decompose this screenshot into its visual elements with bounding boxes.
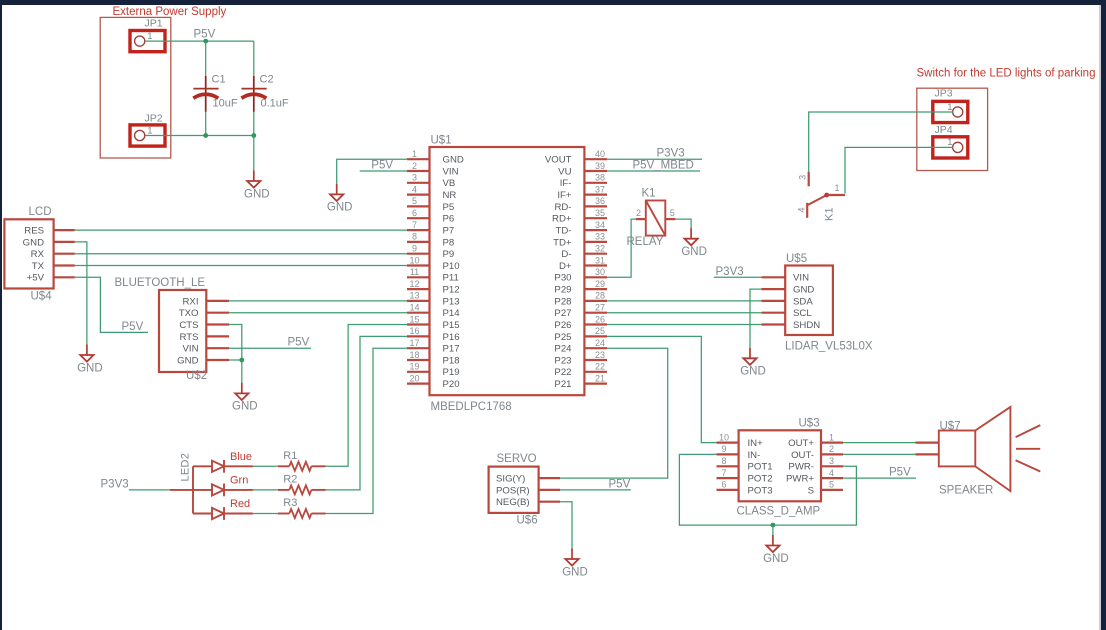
wire: U$1 pin26 to LIDAR SHDN (607, 324, 761, 326)
IC U$3 CLASS_D_AMP body (739, 430, 821, 501)
svg-text:7: 7 (721, 468, 726, 478)
svg-text:10: 10 (719, 432, 729, 442)
svg-text:CTS: CTS (179, 320, 198, 331)
svg-text:R3: R3 (283, 497, 297, 509)
svg-text:P20: P20 (443, 379, 460, 390)
pin 31 (D+) of U$1 (559, 255, 607, 272)
svg-text:IN+: IN+ (748, 438, 764, 449)
svg-text:P14: P14 (443, 308, 461, 319)
IC U$2 BLUETOOTH_LE body (159, 290, 206, 372)
svg-text:SDA: SDA (793, 296, 813, 307)
svg-text:32: 32 (595, 244, 605, 254)
pin 5 of relay K1 (665, 208, 675, 219)
pin 30 (P30) of U$1 (554, 267, 607, 284)
svg-text:LIDAR_VL53L0X: LIDAR_VL53L0X (785, 341, 873, 353)
svg-text:P5V: P5V (371, 160, 393, 172)
LED2 anode bus (193, 466, 212, 513)
svg-text:D+: D+ (559, 261, 572, 272)
wire: U$1 pin1 GND (337, 159, 407, 185)
svg-text:9: 9 (412, 244, 417, 254)
svg-text:P29: P29 (554, 285, 571, 296)
svg-text:P5V: P5V (122, 321, 144, 333)
svg-text:GND: GND (763, 553, 789, 565)
speaker pin + lead (916, 442, 939, 444)
pin 35 (RD+) of U$1 (552, 208, 607, 225)
pin VIN of LIDAR U$5 (761, 273, 809, 284)
svg-text:39: 39 (595, 161, 605, 171)
svg-text:GND: GND (232, 401, 258, 413)
svg-text:P7: P7 (443, 226, 455, 237)
svg-text:P24: P24 (554, 344, 572, 355)
pin 6 (P6) of U$1 (407, 208, 454, 225)
svg-text:JP4: JP4 (935, 124, 953, 136)
wire: C1 bottom lead (205, 112, 207, 136)
pin 26 (P26) of U$1 (554, 314, 607, 331)
wire: LCD GND down to ground (75, 242, 87, 346)
svg-text:SPEAKER: SPEAKER (939, 485, 993, 497)
svg-text:36: 36 (595, 196, 605, 206)
svg-text:PWR-: PWR- (788, 462, 814, 473)
wire: rail down to C1 (205, 41, 207, 76)
pin CTS of BLUETOOTH_LE U$2 (179, 320, 229, 331)
svg-text:Externa Power Supply: Externa Power Supply (113, 6, 227, 18)
svg-text:P26: P26 (554, 320, 571, 331)
pin SIG(Y) of SERVO U$6 (496, 474, 560, 485)
pin 40 (VOUT) of U$1 (545, 149, 607, 166)
svg-text:P3V3: P3V3 (101, 478, 129, 490)
svg-text:U$3: U$3 (799, 418, 820, 430)
pin SCL of LIDAR U$5 (761, 308, 812, 319)
wire: LIDAR GND down to ground (750, 289, 761, 349)
wire: U$1 pin40 P3V3 stub (607, 158, 702, 160)
pin 3 (VB) of U$1 (407, 173, 455, 190)
node: P5V junction at C1 (203, 39, 208, 44)
svg-text:9: 9 (721, 444, 726, 454)
wire: SERVO POS to P5V stub (560, 489, 631, 491)
svg-text:CLASS_D_AMP: CLASS_D_AMP (737, 506, 821, 518)
svg-text:1: 1 (834, 183, 839, 193)
svg-text:4: 4 (412, 184, 417, 194)
svg-text:U$5: U$5 (786, 253, 807, 265)
svg-text:RX: RX (31, 249, 45, 260)
speaker pin - lead (916, 453, 939, 455)
wire: LCD TX to U$1 P10 (75, 265, 407, 267)
pin 38 (IF-) of U$1 (560, 173, 607, 190)
wire: R2 to U$1 P16 (326, 336, 407, 490)
svg-text:GND: GND (77, 362, 103, 374)
svg-text:VIN: VIN (793, 273, 809, 284)
pin 10 (IN+) of CLASS_D_AMP U$3 (717, 432, 764, 449)
svg-text:POS(R): POS(R) (496, 485, 530, 496)
svg-text:27: 27 (595, 303, 605, 313)
svg-text:S: S (808, 485, 814, 496)
svg-text:1: 1 (947, 102, 952, 113)
pin 6 (POT3) of CLASS_D_AMP U$3 (717, 480, 773, 497)
ground below LCD (77, 345, 103, 375)
ground at U$1 pin 1 (327, 184, 353, 214)
svg-text:SCL: SCL (793, 308, 812, 319)
svg-text:P19: P19 (443, 367, 460, 378)
wire: LCD +5V to P5V stub (75, 277, 148, 332)
svg-text:33: 33 (595, 232, 605, 242)
svg-text:JP3: JP3 (935, 88, 953, 100)
connector pad JP3 (933, 101, 968, 122)
svg-text:3: 3 (829, 456, 834, 466)
pin 16 (P16) of U$1 (407, 326, 460, 343)
ground below BLUETOOTH (232, 383, 258, 413)
svg-text:21: 21 (595, 373, 605, 383)
switch K1 pole and pin 1 (807, 183, 845, 205)
frame: switch box (917, 88, 988, 170)
svg-text:7: 7 (412, 220, 417, 230)
svg-text:TD-: TD- (556, 226, 572, 237)
svg-text:IF+: IF+ (557, 190, 572, 201)
svg-text:JP2: JP2 (145, 113, 163, 125)
svg-text:4: 4 (797, 207, 807, 212)
svg-text:U$6: U$6 (517, 515, 538, 527)
pin +5V of LCD U$4 (27, 273, 75, 284)
resistor R1 (278, 450, 326, 471)
svg-text:30: 30 (595, 267, 605, 277)
pin 19 (P19) of U$1 (407, 362, 460, 379)
svg-text:P13: P13 (443, 296, 460, 307)
svg-text:P12: P12 (443, 285, 460, 296)
wire: amp OUT- to speaker (843, 453, 916, 455)
IC U$1 MBEDLPC1768 body (430, 147, 585, 395)
svg-text:P17: P17 (443, 344, 460, 355)
svg-text:38: 38 (595, 173, 605, 183)
pin 8 (POT1) of CLASS_D_AMP U$3 (717, 456, 773, 473)
svg-text:OUT+: OUT+ (788, 438, 814, 449)
svg-text:0.1uF: 0.1uF (261, 98, 289, 110)
svg-text:RD-: RD- (554, 202, 571, 213)
svg-text:3: 3 (798, 175, 808, 180)
connector pad JP4 (933, 137, 968, 158)
svg-text:1: 1 (147, 125, 152, 136)
pin VIN of BLUETOOTH_LE U$2 (183, 344, 230, 355)
svg-text:14: 14 (409, 303, 419, 313)
svg-text:POT2: POT2 (748, 474, 773, 485)
connector pad JP2 (130, 125, 165, 146)
svg-text:40: 40 (595, 149, 605, 159)
ground below CLASS_D_AMP (763, 535, 789, 565)
wire: C2 bottom lead (253, 112, 255, 136)
svg-text:GND: GND (793, 285, 814, 296)
pin 9 (P9) of U$1 (407, 244, 454, 261)
svg-text:GND: GND (177, 355, 198, 366)
wire: LCD RX to U$1 P9 (75, 253, 407, 255)
wire: BT VIN to P5V stub (229, 347, 311, 349)
IC U$4 LCD body (4, 219, 53, 288)
speaker U$7 body (939, 407, 1011, 491)
speaker sound waves (1016, 425, 1041, 471)
svg-text:K1: K1 (642, 188, 656, 200)
pin GND of BLUETOOTH_LE U$2 (177, 355, 229, 366)
wire: LIDAR VIN to P3V3 stub (714, 276, 762, 278)
pin GND of LCD U$4 (23, 237, 75, 248)
ground below relay (681, 228, 707, 258)
svg-text:10: 10 (409, 255, 419, 265)
wire: U$1 pin30 to relay K1 pin2 (607, 219, 636, 277)
wire: relay pin5 to ground (675, 219, 691, 229)
svg-text:8: 8 (721, 456, 726, 466)
pin 25 (P25) of U$1 (554, 326, 607, 343)
ground below SERVO (562, 549, 588, 579)
svg-text:18: 18 (409, 350, 419, 360)
svg-text:U$4: U$4 (31, 291, 53, 303)
svg-text:28: 28 (595, 291, 605, 301)
pin SHDN of LIDAR U$5 (761, 320, 820, 331)
svg-text:22: 22 (595, 362, 605, 372)
pin 2 (VIN) of U$1 (407, 161, 459, 178)
svg-text:NEG(B): NEG(B) (496, 497, 530, 508)
LED diode Red (212, 498, 253, 520)
window top bar (0, 0, 1106, 5)
svg-text:10uF: 10uF (213, 98, 238, 110)
svg-text:LCD: LCD (29, 206, 52, 218)
svg-text:23: 23 (595, 350, 605, 360)
svg-text:VU: VU (558, 166, 571, 177)
svg-text:2: 2 (636, 208, 641, 218)
svg-text:31: 31 (595, 255, 605, 265)
svg-text:GND: GND (681, 246, 707, 258)
pin 4 (PWR+) of CLASS_D_AMP U$3 (786, 468, 843, 485)
svg-text:MBEDLPC1768: MBEDLPC1768 (431, 401, 512, 413)
svg-text:NR: NR (443, 190, 457, 201)
svg-text:17: 17 (409, 338, 419, 348)
svg-text:P5: P5 (443, 202, 455, 213)
pin 15 (P15) of U$1 (407, 314, 460, 331)
wire: BT GND to junction (229, 359, 242, 361)
pin 10 (P10) of U$1 (407, 255, 460, 272)
svg-text:GND: GND (327, 202, 353, 214)
svg-text:P5V: P5V (889, 467, 911, 479)
pin RTS of BLUETOOTH_LE U$2 (179, 332, 229, 343)
svg-text:P16: P16 (443, 332, 460, 343)
pin 21 (P21) of U$1 (554, 373, 607, 390)
pin RX of LCD U$4 (31, 249, 75, 260)
wire: BT RXI to U$1 P13 (229, 300, 407, 302)
svg-text:P30: P30 (554, 273, 571, 284)
pin 7 (POT2) of CLASS_D_AMP U$3 (717, 468, 773, 485)
frame: Externa Power Supply box (100, 17, 171, 158)
pin 29 (P29) of U$1 (554, 279, 607, 296)
svg-text:29: 29 (595, 279, 605, 289)
svg-text:12: 12 (409, 279, 419, 289)
svg-text:U$2: U$2 (186, 370, 207, 382)
svg-text:16: 16 (409, 326, 419, 336)
svg-text:RD+: RD+ (552, 214, 572, 225)
ground below LIDAR (740, 348, 766, 378)
LED diode Grn (212, 475, 253, 497)
pin RXI of BLUETOOTH_LE U$2 (183, 296, 230, 307)
pin 9 (IN-) of CLASS_D_AMP U$3 (717, 444, 761, 461)
svg-text:24: 24 (595, 338, 605, 348)
svg-text:GND: GND (562, 566, 588, 578)
svg-text:P25: P25 (554, 332, 571, 343)
pin GND of LIDAR U$5 (761, 285, 814, 296)
svg-text:C2: C2 (260, 74, 274, 86)
svg-text:P3V3: P3V3 (657, 148, 685, 160)
svg-text:OUT-: OUT- (791, 450, 814, 461)
wire: JP1 to P5V rail (145, 40, 254, 42)
svg-text:R2: R2 (283, 473, 297, 485)
pin 3 (PWR-) of CLASS_D_AMP U$3 (788, 456, 843, 473)
svg-text:19: 19 (409, 362, 419, 372)
svg-text:P9: P9 (443, 249, 455, 260)
pin 28 (P28) of U$1 (554, 291, 607, 308)
svg-text:P11: P11 (443, 273, 459, 284)
wire: Grn LED to R2 (253, 489, 278, 491)
pin 5 (S) of CLASS_D_AMP U$3 (808, 480, 843, 497)
svg-text:JP1: JP1 (145, 18, 163, 30)
resistor R2 (278, 473, 326, 494)
wire: JP4 to switch pin1 (845, 147, 953, 193)
switch K1 pin 4 lead (797, 203, 808, 218)
svg-text:BLUETOOTH_LE: BLUETOOTH_LE (115, 277, 206, 289)
svg-text:P23: P23 (554, 355, 571, 366)
svg-text:3: 3 (412, 173, 417, 183)
node: BT ground junction (239, 358, 244, 363)
wire: amp IN- / PWR- ground loop (679, 454, 856, 525)
wire: amp PWR+ to P5V stub (843, 477, 916, 479)
svg-text:U$7: U$7 (940, 421, 961, 433)
svg-text:POT1: POT1 (748, 462, 773, 473)
svg-text:GND: GND (443, 155, 464, 166)
svg-text:P27: P27 (554, 308, 571, 319)
pin 33 (TD+) of U$1 (553, 232, 607, 249)
svg-text:VOUT: VOUT (545, 155, 572, 166)
svg-text:RELAY: RELAY (627, 236, 664, 248)
capacitor C2 (241, 74, 289, 113)
relay K1 body (646, 201, 666, 236)
svg-text:34: 34 (595, 220, 605, 230)
svg-text:TX: TX (32, 261, 45, 272)
wire: BT CTS down to GND net (229, 325, 242, 361)
pin TX of LCD U$4 (32, 261, 75, 272)
svg-text:1: 1 (947, 137, 952, 148)
pin 27 (P27) of U$1 (554, 303, 607, 320)
svg-text:Switch for the LED lights of p: Switch for the LED lights of parking (917, 68, 1096, 80)
node: junction C1 bottom (203, 133, 208, 138)
capacitor C1 (193, 74, 238, 113)
svg-text:VB: VB (443, 178, 456, 189)
wire: R3 to U$1 P17 (326, 348, 407, 513)
wire: amp OUT+ to speaker (843, 442, 916, 444)
pin 37 (IF+) of U$1 (557, 184, 607, 201)
svg-text:5: 5 (670, 208, 675, 218)
wire: U$1 pin25 to amp IN+ (607, 336, 717, 442)
svg-text:K1: K1 (824, 207, 836, 221)
svg-text:8: 8 (412, 232, 417, 242)
svg-text:POT3: POT3 (748, 485, 773, 496)
svg-text:D-: D- (561, 249, 571, 260)
svg-text:4: 4 (829, 468, 834, 478)
svg-text:TXO: TXO (179, 308, 199, 319)
svg-text:PWR+: PWR+ (786, 474, 814, 485)
wire: R1 to U$1 P15 (326, 325, 407, 467)
wire: U$1 pin28 to LIDAR SDA (607, 300, 761, 302)
pin 39 (VU) of U$1 (558, 161, 607, 178)
svg-text:6: 6 (721, 480, 726, 490)
LED2 anode lead (170, 489, 193, 491)
svg-text:1: 1 (829, 432, 834, 442)
pin 34 (TD-) of U$1 (556, 220, 607, 237)
window right edge (1101, 5, 1106, 630)
svg-text:U$1: U$1 (431, 135, 452, 147)
svg-text:20: 20 (409, 373, 419, 383)
svg-text:1: 1 (412, 149, 417, 159)
svg-text:P8: P8 (443, 237, 455, 248)
ground below C2 (244, 171, 270, 201)
svg-text:GND: GND (244, 188, 270, 200)
pin TXO of BLUETOOTH_LE U$2 (179, 308, 229, 319)
wire: BT junction down to ground (241, 360, 243, 384)
svg-text:P5V_MBED: P5V_MBED (633, 160, 694, 172)
svg-text:2: 2 (412, 161, 417, 171)
svg-text:R1: R1 (283, 450, 297, 462)
pin 32 (D-) of U$1 (561, 244, 607, 261)
pin 36 (RD-) of U$1 (554, 196, 607, 213)
pin 20 (P20) of U$1 (407, 373, 460, 390)
svg-text:RTS: RTS (179, 332, 198, 343)
pin 11 (P11) of U$1 (407, 267, 459, 284)
wire: U$1 pin24 to SERVO SIG (560, 348, 668, 478)
pin 8 (P8) of U$1 (407, 232, 454, 249)
svg-text:LED2: LED2 (180, 453, 192, 482)
wire: JP2 to capacitors bottom (145, 135, 254, 137)
wire: Blue LED to R1 (253, 465, 278, 467)
svg-text:P15: P15 (443, 320, 460, 331)
pin 2 (OUT-) of CLASS_D_AMP U$3 (791, 444, 843, 461)
node: junction C2 bottom (251, 133, 256, 138)
svg-text:35: 35 (595, 208, 605, 218)
svg-text:5: 5 (829, 480, 834, 490)
svg-text:SHDN: SHDN (793, 320, 820, 331)
svg-text:5: 5 (412, 196, 417, 206)
svg-text:26: 26 (595, 314, 605, 324)
svg-text:RXI: RXI (183, 296, 199, 307)
svg-text:P6: P6 (443, 214, 455, 225)
svg-text:1: 1 (147, 31, 152, 42)
wire: U$1 pin39 P5V_MBED stub (607, 170, 700, 172)
svg-text:RES: RES (24, 226, 44, 237)
wire: JP3 to switch pin3 (809, 112, 953, 172)
wire: SERVO NEG down to ground (560, 502, 572, 550)
svg-text:P5V: P5V (288, 337, 310, 349)
svg-text:Blue: Blue (230, 451, 252, 463)
svg-text:P3V3: P3V3 (716, 266, 744, 278)
wire: P3V3 to LED2 anode bus (129, 489, 170, 491)
wire: U$1 pin27 to LIDAR SCL (607, 312, 761, 314)
pin 1 (OUT+) of CLASS_D_AMP U$3 (788, 432, 843, 449)
switch K1 pin 3 lead (798, 172, 809, 187)
pin 24 (P24) of U$1 (554, 338, 607, 355)
svg-text:Red: Red (230, 498, 250, 510)
svg-text:2: 2 (829, 444, 834, 454)
connector pad JP1 (130, 31, 165, 52)
pin 7 (P7) of U$1 (407, 220, 454, 237)
svg-text:P28: P28 (554, 296, 571, 307)
pin RES of LCD U$4 (24, 226, 75, 237)
pin 23 (P23) of U$1 (554, 350, 607, 367)
pin NEG(B) of SERVO U$6 (496, 497, 560, 508)
svg-text:13: 13 (409, 291, 419, 301)
wire: junction down to ground (772, 525, 774, 536)
svg-text:25: 25 (595, 326, 605, 336)
pin 18 (P18) of U$1 (407, 350, 460, 367)
pin 2 of relay K1 (636, 208, 646, 219)
